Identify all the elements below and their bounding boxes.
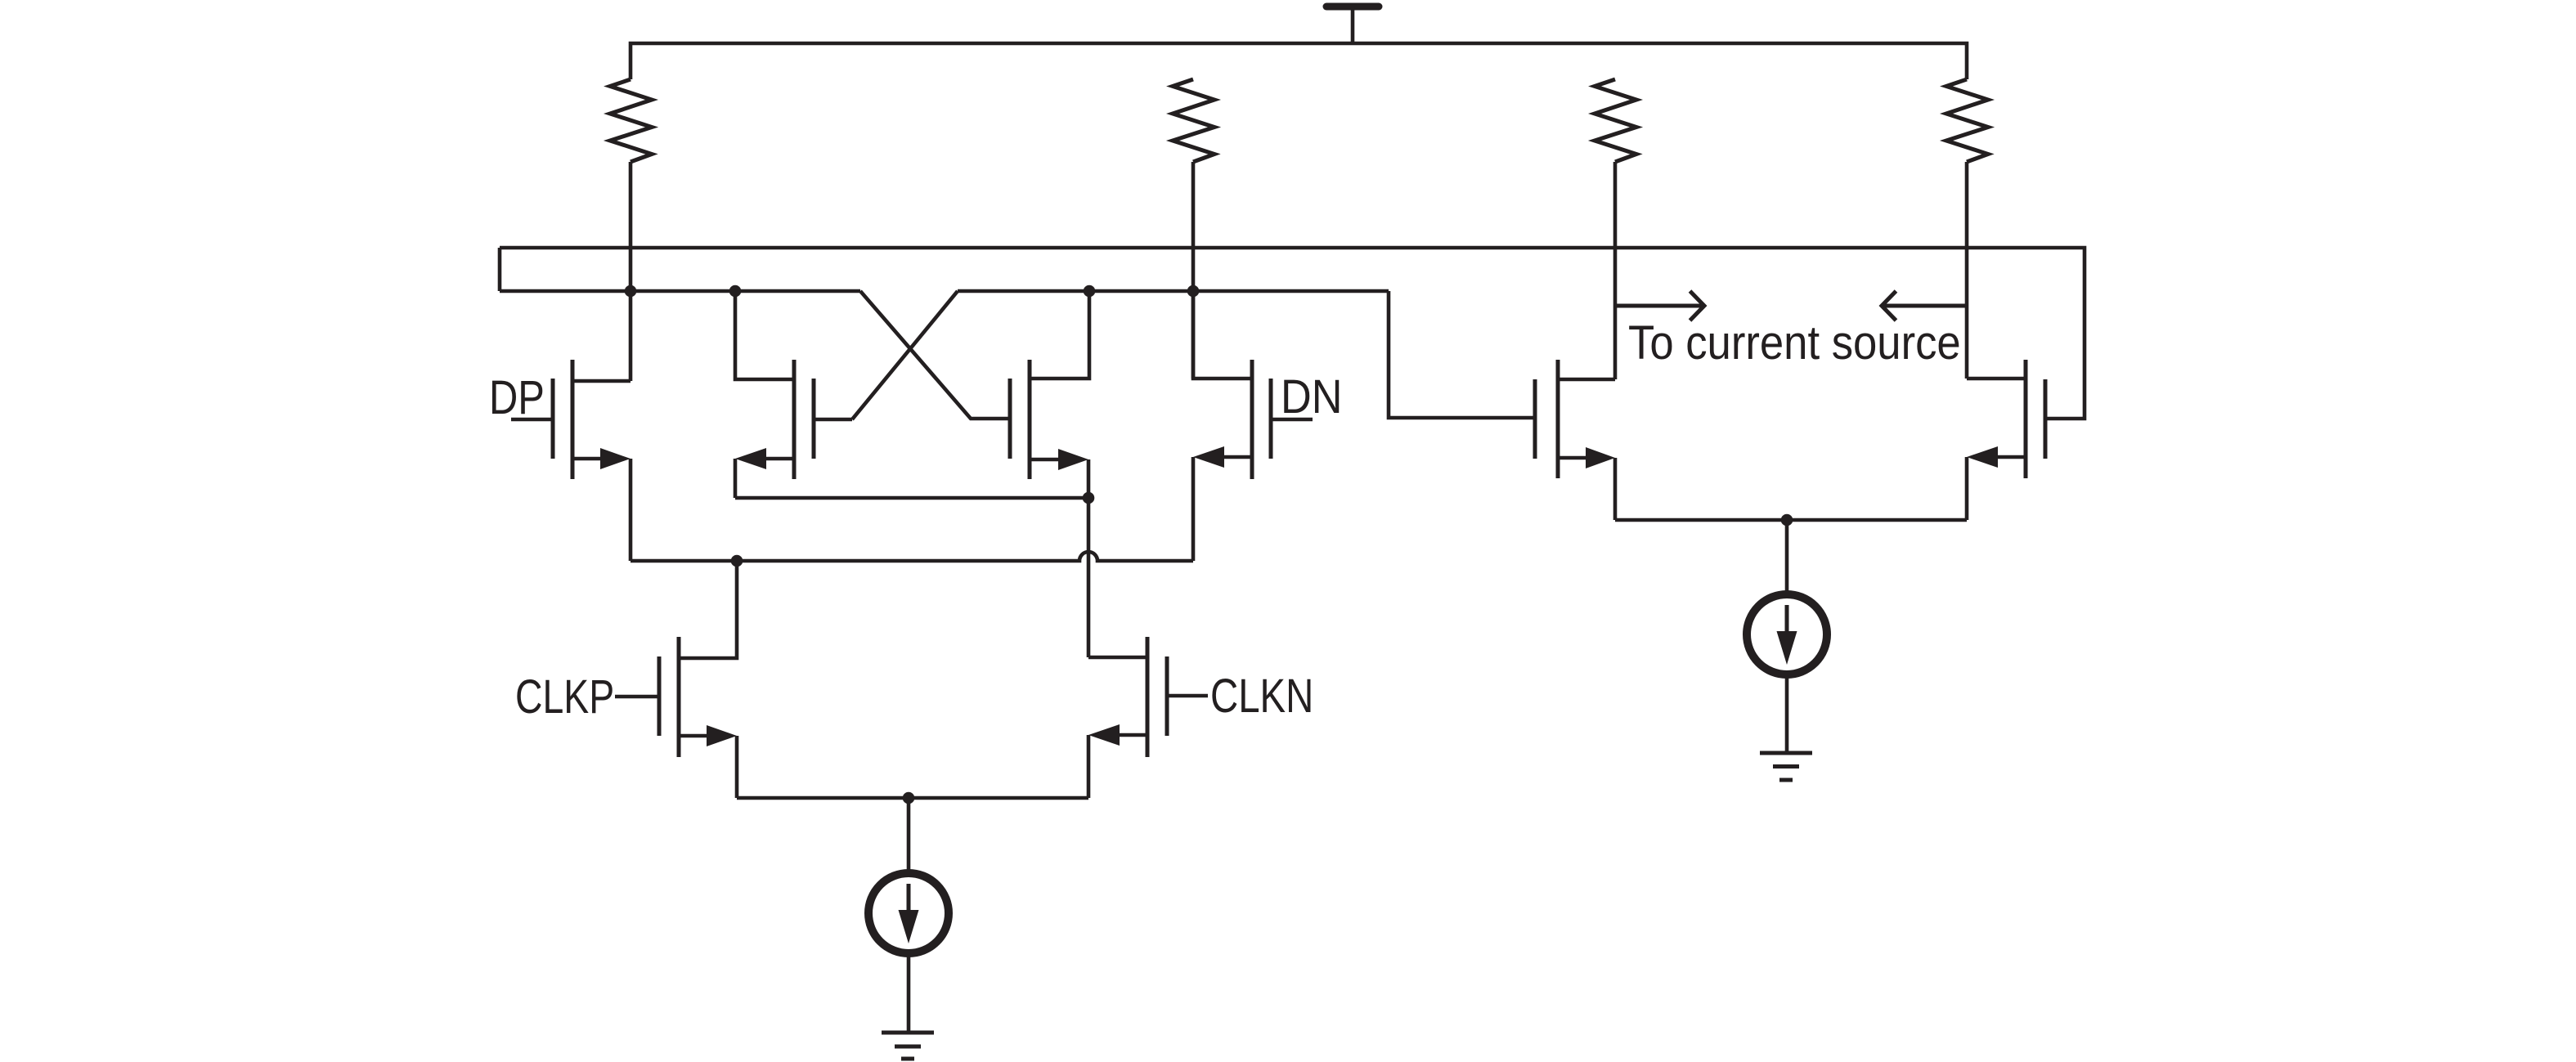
wire tail to current source I1 bbox=[907, 798, 911, 873]
ground GND1 bbox=[882, 1033, 934, 1059]
wire output bus top line to M6 gate bbox=[500, 248, 2085, 419]
wire R4 bottom column to M6 drain bbox=[1965, 162, 1969, 379]
power supply VDD symbol bbox=[1326, 7, 1379, 43]
node R1/bus junction bbox=[625, 285, 637, 298]
node cross-pair tail junction bbox=[1083, 492, 1095, 504]
transistor M6 (second stage right) bbox=[1967, 360, 2045, 478]
wire cross-couple diagonal B from M2 gate bbox=[852, 291, 958, 419]
node M2 drain/bus junction bbox=[729, 285, 742, 298]
transistor M1 (DP input) bbox=[511, 360, 631, 479]
transistor CLKP bbox=[615, 561, 737, 757]
current source I1 bbox=[868, 873, 949, 953]
wire clock pair tail bbox=[737, 796, 1088, 800]
wire tail to current source I2 bbox=[1785, 520, 1789, 594]
wire CLKP source column bbox=[735, 736, 739, 798]
node second stage tail junction bbox=[1781, 514, 1793, 527]
svg-text:DP: DP bbox=[489, 371, 545, 424]
wire I1 to ground bbox=[907, 953, 911, 1033]
wire I2 to ground bbox=[1785, 675, 1789, 753]
arrow to current source (left) bbox=[1882, 291, 1967, 320]
arrow I1 direction bbox=[899, 910, 919, 943]
arrow I2 direction bbox=[1777, 631, 1797, 665]
transistor M4 (DN input) bbox=[1193, 291, 1313, 479]
arrow to current source (right) bbox=[1615, 291, 1704, 320]
wire R1 bottom column to M1 drain bbox=[629, 162, 633, 381]
svg-text:CLKP: CLKP bbox=[515, 670, 614, 724]
arrow M3 source bbox=[1058, 449, 1088, 470]
node clock tail junction bbox=[903, 792, 915, 804]
wire R3 bottom column to M5 drain bbox=[1613, 162, 1618, 379]
svg-text:CLKN: CLKN bbox=[1210, 670, 1313, 724]
arrow M2 source bbox=[735, 448, 766, 469]
wire R2 bottom column to M4 drain bbox=[1192, 162, 1196, 379]
wire CLKN source column bbox=[1087, 735, 1091, 798]
svg-text:DN: DN bbox=[1281, 370, 1342, 423]
wire cross-pair common source bbox=[735, 496, 1088, 500]
resistor R1 bbox=[610, 79, 652, 162]
arrow M1 source bbox=[600, 448, 631, 469]
wire M4 source column bbox=[1192, 457, 1196, 561]
node CLKP drain junction bbox=[731, 555, 743, 567]
wire M2 source column bbox=[734, 459, 738, 498]
wire bus left vertical bbox=[498, 248, 502, 291]
wire bus to M5 gate bbox=[1389, 291, 1535, 418]
resistor R2 bbox=[1173, 79, 1214, 162]
transistor M2 (cross-coupled left) bbox=[735, 291, 852, 479]
wire M3 source column to tail bbox=[1087, 459, 1091, 498]
current source I2 bbox=[1747, 594, 1827, 674]
wire M6 source column bbox=[1965, 457, 1969, 520]
node M3 drain/bus junction bbox=[1084, 285, 1096, 298]
wire bus bottom line right segment bbox=[958, 289, 1389, 294]
wire M1/M4 common source with hop over tail bbox=[631, 552, 1193, 561]
wire bus bottom line left segment bbox=[500, 289, 860, 294]
wire second stage common source bbox=[1615, 518, 1967, 522]
ground GND2 bbox=[1760, 753, 1812, 780]
arrow M4 source bbox=[1193, 446, 1224, 468]
resistor R3 bbox=[1595, 79, 1636, 162]
transistor CLKN bbox=[1088, 637, 1208, 757]
node R2/bus junction bbox=[1187, 285, 1200, 298]
svg-text:To current source: To current source bbox=[1628, 316, 1961, 370]
arrow CLKP source bbox=[707, 725, 737, 746]
resistor R4 bbox=[1946, 79, 1988, 162]
wire VDD top rail bbox=[631, 43, 1967, 79]
arrow M5 source bbox=[1586, 447, 1615, 468]
transistor M5 (second stage left) bbox=[1535, 360, 1615, 478]
wire cross-couple diagonal A to M3 gate bbox=[860, 291, 1010, 419]
transistor M3 (cross-coupled right) bbox=[1010, 291, 1089, 479]
arrow CLKN source bbox=[1088, 724, 1120, 746]
wire M5 source column bbox=[1613, 458, 1618, 520]
wire tail down to CLKN drain bbox=[1087, 498, 1091, 657]
arrow M6 source bbox=[1967, 446, 1998, 468]
wire M1 source column bbox=[629, 459, 633, 561]
